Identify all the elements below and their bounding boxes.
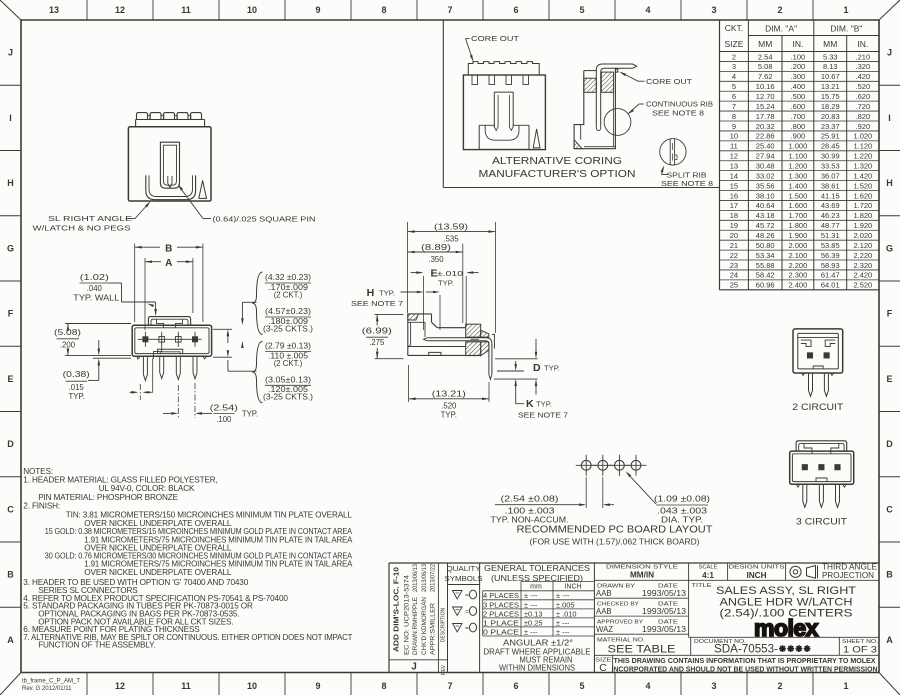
top-left hatch corner — [408, 314, 419, 320]
svg-text:.520: .520 — [856, 82, 871, 91]
svg-text:SDA-70553-: SDA-70553- — [714, 644, 778, 656]
svg-text:35.56: 35.56 — [756, 181, 775, 190]
svg-text:4: 4 — [732, 72, 736, 81]
svg-text:8: 8 — [732, 112, 736, 121]
svg-text:13.21: 13.21 — [821, 82, 840, 91]
svg-text:TITLE: TITLE — [692, 583, 712, 589]
svg-text:± ---: ± --- — [556, 627, 570, 636]
svg-text:.420: .420 — [856, 72, 871, 81]
svg-text:23: 23 — [730, 261, 738, 270]
svg-text:.210: .210 — [856, 52, 871, 61]
svg-text:DIM. "B": DIM. "B" — [830, 24, 862, 34]
svg-text:25.91: 25.91 — [821, 132, 840, 141]
svg-text:20: 20 — [730, 231, 738, 240]
svg-text:18: 18 — [730, 211, 738, 220]
svg-text:16: 16 — [730, 191, 738, 200]
svg-text:F: F — [8, 309, 14, 319]
svg-text:3: 3 — [711, 681, 716, 691]
svg-text:MANUFACTURER'S OPTION: MANUFACTURER'S OPTION — [479, 168, 636, 180]
document no — [690, 637, 692, 655]
svg-text:45.72: 45.72 — [756, 221, 775, 230]
svg-text:(2.54 ±0.08): (2.54 ±0.08) — [501, 494, 560, 503]
svg-text:SEE NOTE 7: SEE NOTE 7 — [351, 299, 403, 308]
svg-text:1.420: 1.420 — [853, 171, 872, 180]
latch top — [148, 317, 190, 326]
svg-text:58.42: 58.42 — [756, 271, 775, 280]
svg-text:20.32: 20.32 — [756, 122, 775, 131]
svg-text:(5.08): (5.08) — [54, 328, 82, 337]
svg-text:D: D — [533, 362, 541, 374]
svg-text:33.02: 33.02 — [756, 171, 775, 180]
svg-text:5.08: 5.08 — [758, 62, 773, 71]
svg-text:4: 4 — [645, 5, 650, 15]
svg-text:SEE TABLE: SEE TABLE — [608, 643, 676, 655]
svg-text:6: 6 — [732, 92, 736, 101]
svg-text:CKT.: CKT. — [725, 23, 743, 33]
svg-text:± ---: ± --- — [556, 591, 570, 600]
svg-text:D: D — [886, 439, 893, 449]
svg-text:.900: .900 — [791, 132, 806, 141]
svg-text:mm: mm — [530, 583, 542, 590]
svg-text:(2 CKT.): (2 CKT.) — [274, 290, 303, 299]
svg-text:F: F — [887, 309, 893, 319]
dim K — [494, 378, 538, 380]
svg-text:(4.57±0.23): (4.57±0.23) — [265, 307, 311, 316]
svg-text:±.005: ±.005 — [556, 600, 574, 609]
svg-text:I: I — [9, 113, 12, 123]
svg-text:10: 10 — [730, 132, 738, 141]
svg-text:SIZE: SIZE — [724, 39, 743, 49]
svg-text:GENERAL TOLERANCES: GENERAL TOLERANCES — [484, 564, 590, 573]
svg-text:2.100: 2.100 — [789, 251, 808, 260]
svg-text:.720: .720 — [856, 102, 871, 111]
svg-text:QUALITY: QUALITY — [447, 564, 481, 573]
svg-text:2. FINISH:: 2. FINISH: — [23, 502, 60, 511]
coring front view — [468, 62, 539, 75]
svg-text:1 OF 3: 1 OF 3 — [843, 645, 877, 656]
svg-text:.100 ±.003: .100 ±.003 — [505, 507, 555, 516]
svg-text:58.93: 58.93 — [821, 261, 840, 270]
svg-text:8: 8 — [381, 681, 386, 691]
svg-text:(1.02): (1.02) — [80, 273, 110, 282]
svg-text:A: A — [7, 635, 14, 645]
svg-text:1.300: 1.300 — [789, 171, 808, 180]
svg-text:.600: .600 — [791, 102, 806, 111]
svg-text:.700: .700 — [791, 112, 806, 121]
svg-text:14: 14 — [730, 171, 738, 180]
svg-text:J: J — [411, 662, 417, 673]
coring side view — [574, 69, 618, 149]
svg-text:.500: .500 — [791, 92, 806, 101]
svg-text:SCALE: SCALE — [698, 564, 717, 570]
svg-text:23.37: 23.37 — [821, 122, 840, 131]
svg-text:(3.05±0.13): (3.05±0.13) — [265, 375, 311, 384]
svg-text:21: 21 — [730, 241, 738, 250]
svg-text:1.800: 1.800 — [789, 221, 808, 230]
svg-text:2: 2 — [777, 5, 782, 15]
pc board layout holes — [581, 460, 591, 470]
svg-text:=: = — [465, 625, 469, 632]
svg-text:TYP.: TYP. — [379, 289, 395, 298]
svg-text:.620: .620 — [856, 92, 871, 101]
svg-text:15: 15 — [730, 181, 738, 190]
svg-text:40.64: 40.64 — [756, 201, 775, 210]
svg-text:(3-25 CKTS.): (3-25 CKTS.) — [263, 324, 313, 333]
svg-text:G: G — [7, 243, 14, 253]
svg-text:±0.13: ±0.13 — [524, 609, 542, 618]
svg-text:.320: .320 — [856, 62, 871, 71]
svg-text:H: H — [7, 178, 14, 188]
svg-text:E: E — [7, 374, 13, 384]
svg-text:(0.38): (0.38) — [63, 370, 91, 379]
bottom notch — [158, 349, 183, 354]
svg-text:1.200: 1.200 — [789, 161, 808, 170]
svg-text:12: 12 — [730, 152, 738, 161]
svg-text:1.120: 1.120 — [853, 142, 872, 151]
braces — [252, 272, 262, 334]
svg-text:(8.89): (8.89) — [421, 243, 452, 252]
svg-text:2.400: 2.400 — [789, 281, 808, 290]
svg-text:1.000: 1.000 — [789, 142, 808, 151]
revision block — [447, 563, 449, 673]
svg-text:38.61: 38.61 — [821, 181, 840, 190]
svg-text:10: 10 — [247, 5, 257, 15]
svg-text:Rev. G 2012/01/11: Rev. G 2012/01/11 — [22, 686, 72, 692]
svg-text:DIM. "A": DIM. "A" — [765, 24, 797, 34]
svg-text:25.40: 25.40 — [756, 142, 775, 151]
svg-text:.300: .300 — [791, 72, 806, 81]
svg-text:J: J — [8, 48, 13, 58]
dim 13.21 — [408, 365, 410, 402]
svg-text:2013/07/22: 2013/07/22 — [431, 563, 437, 592]
svg-text:1993/05/13: 1993/05/13 — [642, 625, 686, 634]
svg-text:(0.64)/.025 SQUARE PIN: (0.64)/.025 SQUARE PIN — [213, 215, 316, 224]
svg-text:±.010: ±.010 — [437, 269, 463, 278]
svg-text:C: C — [886, 504, 893, 514]
svg-text:2013/06/13: 2013/06/13 — [413, 563, 419, 592]
svg-text:OVER NICKEL UNDERPLATE OVERALL: OVER NICKEL UNDERPLATE OVERALL — [84, 568, 232, 577]
svg-text:(FOR USE WITH (1.57)/.062 THIC: (FOR USE WITH (1.57)/.062 THICK BOARD) — [530, 538, 700, 547]
svg-text:± ---: ± --- — [556, 618, 570, 627]
svg-text:MM/IN: MM/IN — [630, 571, 654, 580]
svg-text:1993/05/13: 1993/05/13 — [642, 607, 686, 616]
svg-text:9: 9 — [315, 681, 320, 691]
svg-text:1.520: 1.520 — [853, 181, 872, 190]
svg-text:1.900: 1.900 — [789, 231, 808, 240]
svg-text:CHK'D:KDMORGAN: CHK'D:KDMORGAN — [422, 597, 428, 655]
sheet no — [838, 637, 840, 655]
svg-text:5.33: 5.33 — [823, 52, 838, 61]
svg-text:48.77: 48.77 — [821, 221, 840, 230]
svg-text:.520: .520 — [441, 402, 457, 411]
svg-text:.100: .100 — [791, 52, 806, 61]
svg-text:15.75: 15.75 — [821, 92, 840, 101]
svg-text:60.96: 60.96 — [756, 281, 775, 290]
svg-text:53.85: 53.85 — [821, 241, 840, 250]
svg-text:12: 12 — [115, 5, 125, 15]
svg-text:SALES ASSY, SL RIGHT: SALES ASSY, SL RIGHT — [716, 585, 856, 597]
svg-text:2.54: 2.54 — [758, 52, 773, 61]
svg-text:C: C — [7, 504, 14, 514]
svg-text:20.83: 20.83 — [821, 112, 840, 121]
svg-text:5: 5 — [579, 681, 584, 691]
svg-text:2.220: 2.220 — [853, 251, 872, 260]
svg-text:TYP.: TYP. — [242, 410, 258, 419]
svg-text:ANGULAR ±1/2°: ANGULAR ±1/2° — [503, 639, 573, 648]
svg-text:3: 3 — [711, 5, 716, 15]
svg-text:2.000: 2.000 — [789, 241, 808, 250]
svg-text:.920: .920 — [856, 122, 871, 131]
svg-text:1.220: 1.220 — [853, 152, 872, 161]
svg-text:3 PLACES: 3 PLACES — [483, 600, 519, 609]
svg-text:SL RIGHT ANGLE: SL RIGHT ANGLE — [48, 214, 132, 223]
svg-text:4: 4 — [645, 681, 650, 691]
connector front view top-left — [136, 119, 205, 121]
svg-text:2.420: 2.420 — [853, 271, 872, 280]
svg-text:±0.25: ±0.25 — [524, 618, 542, 627]
svg-text:(2.54): (2.54) — [210, 404, 239, 413]
svg-text:11: 11 — [181, 5, 191, 15]
svg-text:REV: REV — [441, 664, 447, 675]
svg-text:2.020: 2.020 — [853, 231, 872, 240]
svg-text:61.47: 61.47 — [821, 271, 840, 280]
svg-text:30.48: 30.48 — [756, 161, 775, 170]
svg-text:AAB: AAB — [596, 589, 612, 598]
svg-text:TYP.: TYP. — [544, 364, 560, 373]
svg-text:(1.09 ±0.08): (1.09 ±0.08) — [654, 494, 711, 503]
svg-text:28.45: 28.45 — [821, 142, 840, 151]
svg-text:30.99: 30.99 — [821, 152, 840, 161]
quality symbols block — [479, 563, 481, 673]
svg-text:9: 9 — [315, 5, 320, 15]
svg-text:1.400: 1.400 — [789, 181, 808, 190]
svg-text:CORE OUT: CORE OUT — [646, 77, 692, 86]
svg-text:5: 5 — [732, 82, 736, 91]
svg-text:.200: .200 — [60, 340, 76, 349]
svg-text:19: 19 — [730, 221, 738, 230]
svg-text:7: 7 — [732, 102, 736, 111]
side hatched blocks — [466, 324, 481, 337]
svg-text:6: 6 — [513, 681, 518, 691]
svg-text:1.320: 1.320 — [853, 161, 872, 170]
svg-text:WAZ: WAZ — [596, 625, 613, 634]
svg-text:TYP. WALL: TYP. WALL — [73, 294, 120, 303]
svg-text:17.78: 17.78 — [756, 112, 775, 121]
svg-text:CORE OUT: CORE OUT — [471, 34, 519, 43]
bottom feet — [137, 356, 140, 359]
svg-text:2.200: 2.200 — [789, 261, 808, 270]
svg-text:APPR:SMILLER: APPR:SMILLER — [431, 602, 437, 655]
svg-text:53.34: 53.34 — [756, 251, 775, 260]
svg-text:DESIGN UNITS: DESIGN UNITS — [729, 564, 785, 570]
svg-text:.800: .800 — [791, 122, 806, 131]
pin1 width dim — [139, 384, 141, 400]
svg-text:12: 12 — [115, 681, 125, 691]
svg-text:64.01: 64.01 — [821, 281, 840, 290]
svg-text:SEE NOTE 7: SEE NOTE 7 — [518, 411, 568, 420]
svg-text:1.600: 1.600 — [789, 201, 808, 210]
svg-text:DIMENSION STYLE: DIMENSION STYLE — [606, 564, 678, 570]
svg-text:.200: .200 — [791, 62, 806, 71]
svg-text:10: 10 — [247, 681, 257, 691]
svg-text:1.820: 1.820 — [853, 211, 872, 220]
3 circuit view — [790, 451, 854, 484]
svg-text:PIN MATERIAL: PHOSPHOR BRONZE: PIN MATERIAL: PHOSPHOR BRONZE — [38, 493, 178, 502]
svg-text:TYP.: TYP. — [69, 392, 85, 401]
svg-text:G: G — [886, 243, 893, 253]
svg-text:7: 7 — [447, 681, 452, 691]
svg-text:FUNCTION OF THE ASSEMBLY.: FUNCTION OF THE ASSEMBLY. — [38, 641, 155, 650]
svg-text:2.300: 2.300 — [789, 271, 808, 280]
svg-text:D: D — [7, 439, 14, 449]
svg-text:4:1: 4:1 — [702, 571, 714, 580]
svg-text:2.120: 2.120 — [853, 241, 872, 250]
dim 5.08 — [65, 323, 131, 325]
svg-text:18.29: 18.29 — [821, 102, 840, 111]
border frame — [21, 19, 879, 21]
svg-text:1.620: 1.620 — [853, 191, 872, 200]
svg-text:SPLIT RIB: SPLIT RIB — [667, 170, 707, 179]
svg-text:SEE NOTE 8: SEE NOTE 8 — [652, 109, 704, 118]
svg-text:6: 6 — [513, 5, 518, 15]
svg-text:.820: .820 — [856, 112, 871, 121]
svg-text:CONTINUOUS RIB: CONTINUOUS RIB — [646, 100, 713, 109]
svg-text:13: 13 — [730, 161, 738, 170]
svg-text:INCH: INCH — [564, 583, 581, 590]
svg-text:25: 25 — [730, 281, 738, 290]
svg-text:.040: .040 — [87, 284, 103, 293]
svg-text:27.94: 27.94 — [756, 152, 775, 161]
svg-text:SYMBOLS: SYMBOLS — [445, 574, 483, 583]
design units cell — [785, 563, 787, 580]
svg-text:.015: .015 — [69, 383, 85, 392]
svg-text:.350: .350 — [428, 255, 444, 264]
svg-text:12.70: 12.70 — [756, 92, 775, 101]
svg-text:2.520: 2.520 — [853, 281, 872, 290]
size cell + disclaimer — [593, 655, 595, 672]
svg-text:H: H — [886, 178, 893, 188]
svg-text:2 PLACES: 2 PLACES — [483, 609, 519, 618]
side pin tab — [492, 334, 495, 348]
svg-text:5: 5 — [579, 5, 584, 15]
alternative coring box — [442, 20, 444, 188]
svg-text:TYP.: TYP. — [441, 411, 457, 420]
svg-text:tb_frame_C_P_AM_T: tb_frame_C_P_AM_T — [22, 679, 80, 685]
svg-text:(6.99): (6.99) — [362, 327, 393, 336]
svg-text:36.07: 36.07 — [821, 171, 840, 180]
svg-text:10.16: 10.16 — [756, 82, 775, 91]
svg-text:10.67: 10.67 — [821, 72, 840, 81]
svg-text:I: I — [888, 113, 891, 123]
svg-text:8: 8 — [381, 5, 386, 15]
callout dim lines right — [241, 302, 243, 322]
pc dim 2.54 — [585, 477, 587, 508]
svg-text:1: 1 — [843, 681, 848, 691]
svg-text:(4.32 ±0.23): (4.32 ±0.23) — [265, 273, 311, 282]
svg-text:41.15: 41.15 — [821, 191, 840, 200]
svg-text:INCORPORATED AND SHOULD NOT BE: INCORPORATED AND SHOULD NOT BE USED WITH… — [612, 665, 878, 674]
svg-text:1.100: 1.100 — [789, 152, 808, 161]
svg-text:2 CIRCUIT: 2 CIRCUIT — [792, 402, 843, 413]
svg-text:0 PLACE: 0 PLACE — [483, 627, 519, 636]
drawn/checked/approved rows — [594, 597, 688, 599]
svg-text:(2 CKT.): (2 CKT.) — [274, 359, 303, 368]
svg-text:.400: .400 — [791, 82, 806, 91]
svg-text:3: 3 — [732, 62, 736, 71]
svg-text:22: 22 — [730, 251, 738, 260]
svg-text:W/LATCH & NO PEGS: W/LATCH & NO PEGS — [33, 224, 131, 233]
svg-text:(2.79 ±0.13): (2.79 ±0.13) — [265, 342, 311, 351]
svg-text:A: A — [165, 258, 172, 269]
pins in front view — [138, 338, 202, 340]
svg-text:55.88: 55.88 — [756, 261, 775, 270]
svg-text:15.24: 15.24 — [756, 102, 775, 111]
dim 6.99 — [375, 313, 404, 315]
dimension table — [719, 20, 721, 290]
svg-text:IN.: IN. — [792, 39, 803, 49]
svg-text:B: B — [886, 570, 893, 580]
svg-text:1: 1 — [843, 5, 848, 15]
svg-text:=: = — [465, 592, 469, 599]
svg-text:8.13: 8.13 — [823, 62, 838, 71]
svg-text:.275: .275 — [369, 338, 385, 347]
svg-text:DRAWN:RMHIPPLE: DRAWN:RMHIPPLE — [413, 597, 419, 655]
svg-text:J: J — [887, 48, 892, 58]
dimension style cell — [594, 579, 879, 581]
svg-text:DESCRIPTION: DESCRIPTION — [440, 608, 446, 643]
svg-text:E: E — [886, 374, 892, 384]
svg-text:1.500: 1.500 — [789, 191, 808, 200]
svg-text:IN.: IN. — [857, 39, 868, 49]
continuous rib detail — [604, 109, 631, 136]
tolerances block — [593, 563, 595, 673]
svg-text:ADD DIM'S-LOC. F-10: ADD DIM'S-LOC. F-10 — [392, 567, 401, 652]
svg-text:1.920: 1.920 — [853, 221, 872, 230]
svg-text:INCH: INCH — [746, 571, 766, 580]
svg-text:AAB: AAB — [596, 607, 612, 616]
svg-text:(13.21): (13.21) — [432, 389, 467, 398]
svg-text:11: 11 — [730, 142, 738, 151]
svg-text:38.10: 38.10 — [756, 191, 775, 200]
svg-text:1.720: 1.720 — [853, 201, 872, 210]
svg-text:17: 17 — [730, 201, 738, 210]
dim 0.38 — [93, 357, 131, 359]
svg-text:PROJECTION: PROJECTION — [822, 571, 874, 580]
third angle projection — [790, 566, 801, 577]
svg-text:33.53: 33.53 — [821, 161, 840, 170]
svg-text:B: B — [7, 570, 14, 580]
svg-text:1.700: 1.700 — [789, 211, 808, 220]
svg-text:WITHIN DIMENSIONS: WITHIN DIMENSIONS — [499, 663, 575, 672]
svg-text:TYP.: TYP. — [536, 400, 552, 409]
svg-text:(3-25 CKTS.): (3-25 CKTS.) — [263, 393, 313, 402]
side view body — [408, 313, 432, 315]
svg-text:ALTERNATIVE CORING: ALTERNATIVE CORING — [492, 155, 622, 167]
svg-text:± ---: ± --- — [524, 627, 538, 636]
svg-text:± ---: ± --- — [524, 591, 538, 600]
dim 2.54 bottom — [177, 385, 179, 418]
side pin — [427, 338, 492, 375]
svg-text:EC NO: UCP2013-5374: EC NO: UCP2013-5374 — [404, 574, 411, 655]
pins below housing — [142, 356, 144, 374]
svg-text:± .010: ± .010 — [556, 609, 577, 618]
svg-text:SEE NOTE 8: SEE NOTE 8 — [661, 179, 713, 188]
title block outline — [389, 562, 879, 564]
svg-text:.100: .100 — [216, 415, 232, 424]
svg-text:22.86: 22.86 — [756, 132, 775, 141]
svg-text:9: 9 — [732, 122, 736, 131]
svg-text:24: 24 — [730, 271, 738, 280]
